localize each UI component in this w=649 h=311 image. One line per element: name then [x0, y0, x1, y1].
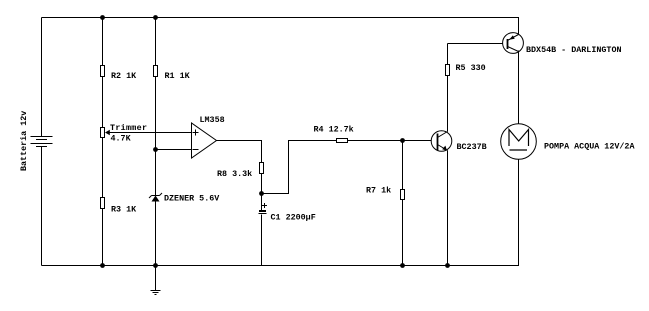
wire feedback branch to R4 — [262, 141, 337, 194]
junction bottom rail R7 — [400, 263, 405, 268]
resistor R2 — [101, 66, 105, 77]
svg-text:R5 330: R5 330 — [456, 63, 486, 73]
wire trimmer to R3 — [102, 138, 104, 198]
svg-text:R2 1K: R2 1K — [111, 71, 137, 81]
motor M POMPA ACQUA — [501, 124, 537, 160]
svg-text:C1 2200µF: C1 2200µF — [271, 213, 316, 223]
junction bottom rail zener/ground — [153, 263, 158, 268]
wire R2 column top — [102, 18, 104, 66]
wire trimmer wiper to op-amp plus input — [110, 132, 192, 134]
svg-text:Trimmer: Trimmer — [110, 123, 147, 133]
wire R2 to trimmer — [102, 77, 104, 128]
wire R5 bottom to BC237B collector — [447, 76, 449, 132]
svg-text:R4 12.7k: R4 12.7k — [314, 125, 354, 135]
resistor R8 — [260, 163, 264, 174]
wire R4 to BC237B base — [348, 140, 432, 142]
junction top rail R1 — [153, 15, 158, 20]
resistor R1 — [154, 66, 158, 77]
svg-text:4.7K: 4.7K — [111, 134, 132, 144]
wire battery top lead — [41, 18, 43, 137]
svg-text:R1 1K: R1 1K — [165, 71, 191, 81]
transistor Q2 BDX54B PNP — [503, 33, 524, 54]
wire op-amp output to R8 — [217, 141, 262, 163]
wire R8 bottom to C1 — [261, 174, 263, 211]
zener diode DZENER — [149, 193, 162, 202]
svg-text:R8 3.3k: R8 3.3k — [217, 169, 252, 179]
op-amp U1 LM358 — [192, 123, 217, 158]
wire bottom ground rail — [42, 160, 519, 266]
wire R5 top corner to BDX54B base — [448, 43, 503, 45]
capacitor C1 electrolytic — [259, 203, 268, 214]
junction bottom rail R3 — [100, 263, 105, 268]
svg-text:BDX54B - DARLINGTON: BDX54B - DARLINGTON — [526, 45, 622, 55]
wire BC237B emitter to rail — [447, 151, 449, 266]
wire node to op-amp minus input — [156, 149, 192, 151]
resistor R4 — [337, 139, 348, 143]
svg-text:R7 1k: R7 1k — [366, 186, 391, 196]
wire R1 column top — [155, 18, 157, 66]
trimmer body — [101, 128, 105, 138]
svg-text:Batteria 12v: Batteria 12v — [19, 111, 29, 171]
junction minus input node — [153, 147, 158, 152]
ground symbol — [151, 291, 161, 295]
resistor R5 — [446, 65, 450, 76]
wire motor bottom lead — [518, 160, 520, 266]
svg-text:DZENER 5.6V: DZENER 5.6V — [164, 194, 220, 204]
svg-text:BC237B: BC237B — [457, 142, 487, 152]
trimmer wiper arrow — [105, 130, 110, 136]
wire zener to rail — [155, 202, 157, 266]
wire R3 to rail — [102, 209, 104, 266]
resistor R3 — [101, 198, 105, 209]
svg-text:POMPA ACQUA 12V/2A: POMPA ACQUA 12V/2A — [544, 142, 635, 152]
battery Batteria 12v — [31, 137, 53, 147]
wire C1 to rail — [261, 215, 263, 266]
svg-text:LM358: LM358 — [200, 115, 225, 125]
wire ground lead — [155, 266, 157, 291]
wire corner to R5 top — [447, 44, 449, 65]
resistor R7 — [401, 190, 405, 200]
wire battery bottom lead — [41, 147, 43, 266]
wire R7 bottom lead — [402, 200, 404, 266]
wire R7 top lead — [402, 141, 404, 190]
junction bottom rail BC237B emitter — [445, 263, 450, 268]
svg-text:R3 1K: R3 1K — [111, 205, 137, 215]
wire top +12V rail — [42, 18, 519, 35]
junction R8 C1 node — [259, 191, 264, 196]
junction R4 R7 base node — [400, 138, 405, 143]
wire BDX54B collector to motor — [518, 51, 520, 124]
junction top rail R2 — [100, 15, 105, 20]
transistor Q1 BC237B — [431, 131, 452, 152]
wire R1 to zener — [155, 77, 157, 196]
